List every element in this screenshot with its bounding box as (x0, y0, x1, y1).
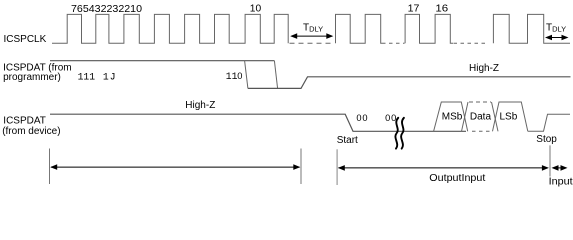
left measure bar 1 (49, 149, 51, 185)
svg-text:765432232210: 765432232210 (71, 3, 142, 15)
TDLY arrow (middle) (290, 33, 333, 39)
transition parallelogram left slant (245, 61, 248, 89)
svg-text:ICSPCLK: ICSPCLK (4, 34, 47, 45)
svg-text:ICSPDAT: ICSPDAT (3, 116, 46, 127)
last clock pulses (2) (493, 14, 570, 43)
TDLY dashed baseline (middle) (290, 42, 335, 44)
svg-text:17: 17 (408, 3, 420, 15)
clock pulses after first TDLY (2 pulses) (336, 14, 383, 43)
programmer data high line (50, 60, 274, 62)
clock pulses 17 and 16 (405, 14, 453, 43)
output double arrow (338, 165, 549, 171)
TDLY arrow (right) (545, 35, 569, 41)
right measure bar 1 (336, 149, 338, 185)
svg-text:00: 00 (356, 113, 368, 123)
left measure bar 2 (300, 149, 302, 185)
svg-text:0: 0 (237, 71, 242, 81)
programmer data low line and rise to High-Z (248, 77, 571, 89)
svg-text:High-Z: High-Z (185, 100, 215, 111)
MSb cell (434, 102, 468, 131)
svg-text:Stop: Stop (536, 134, 557, 145)
svg-text:OutputInput: OutputInput (429, 173, 485, 184)
svg-text:111: 111 (78, 72, 96, 83)
svg-text:LSb: LSb (500, 112, 518, 123)
dotted baseline gap (382, 42, 405, 44)
svg-text:00: 00 (385, 113, 397, 123)
svg-text:TDLY: TDLY (546, 22, 566, 33)
svg-text:Data: Data (470, 112, 492, 123)
svg-text:10: 10 (250, 3, 262, 15)
svg-text:programmer): programmer) (3, 72, 61, 83)
device High-Z line and fall to low (50, 114, 466, 131)
svg-text:Input: Input (549, 177, 573, 188)
svg-text:TDLY: TDLY (303, 23, 323, 34)
svg-text:11: 11 (226, 71, 238, 82)
device line after LSb, rise to stop level (528, 114, 570, 131)
break squiggle 1 (395, 118, 398, 149)
dotted baseline gap (454, 42, 489, 44)
transition parallelogram right slant (274, 61, 277, 89)
ICSPCLK waveform: first group of 8 pulses (52, 14, 288, 43)
svg-text:1J: 1J (103, 72, 117, 83)
svg-text:MSb: MSb (442, 112, 463, 123)
svg-text:(from device): (from device) (2, 126, 60, 137)
svg-text:Start: Start (337, 135, 358, 146)
break squiggle 2 (401, 118, 404, 149)
svg-text:High-Z: High-Z (469, 63, 499, 74)
svg-text:16: 16 (435, 3, 448, 15)
LSb cell (493, 102, 528, 131)
small input double arrow (552, 165, 568, 171)
left double arrow (50, 164, 300, 170)
right measure bar 2 (under Stop) (549, 145, 551, 176)
Data cell (dashed) (462, 102, 499, 131)
